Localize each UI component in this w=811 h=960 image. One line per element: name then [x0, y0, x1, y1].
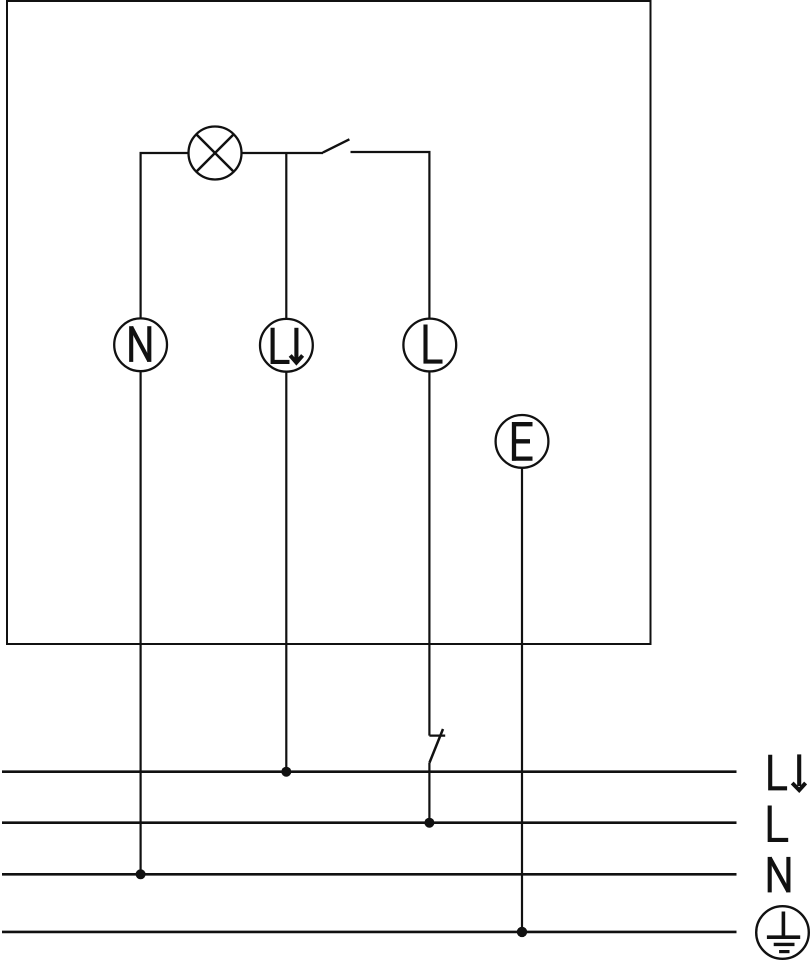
terminal N (circle) [114, 318, 167, 371]
bus line L (live) [2, 821, 737, 824]
junction dot: E wire on bus PE [517, 927, 527, 937]
wire: terminal N bottom down to bus N [140, 371, 142, 874]
junction dot: N wire on bus N [136, 869, 146, 879]
label L inside terminal L [426, 325, 443, 362]
wire: terminal E bottom down to bus PE [521, 468, 523, 932]
wire: switch S2 bottom down to bus L [428, 763, 430, 823]
lamp E1 (circle with X) [189, 127, 242, 180]
wire: switch S1 right contact to corner, down to terminal L top [351, 152, 430, 319]
wire: junction at (286.3,153) down to terminal Larrow top [285, 153, 287, 319]
switch S2 fixed contact stub [429, 734, 445, 736]
net label L (right of bus L) [770, 806, 789, 840]
wire: lamp left lead, corner at (140.6,153), down to terminal N top [141, 153, 189, 319]
bus line Larrow (switched live) [2, 770, 737, 773]
net label N (right of bus N) [770, 857, 789, 893]
wire: lamp right lead to switch S1 pivot [242, 152, 324, 154]
device enclosure rectangle [7, 1, 651, 644]
bus line N (neutral) [2, 873, 737, 876]
terminal E (circle) [496, 415, 549, 468]
wire: terminal L bottom down to switch S2 top contact [428, 371, 430, 735]
label E inside terminal E [512, 422, 533, 461]
label L with down arrow inside terminal Larrow [273, 328, 303, 363]
switch S1 blade (open switch in top circuit) [323, 139, 350, 152]
switch S2 blade [429, 729, 443, 763]
net symbol PE earth (right of bus PE) [756, 906, 809, 959]
label N inside terminal N [131, 326, 149, 362]
terminal Larrow (circle) [260, 319, 313, 372]
junction dot: Larrow wire on bus Larrow [281, 767, 291, 777]
terminal L (circle) [403, 319, 456, 372]
junction dot: L wire on bus L [424, 818, 434, 828]
bus line PE (earth) [2, 931, 737, 934]
net label Larrow (right of bus Larrow) [770, 754, 805, 790]
wire: terminal Larrow bottom down to bus Larrow [285, 372, 287, 772]
